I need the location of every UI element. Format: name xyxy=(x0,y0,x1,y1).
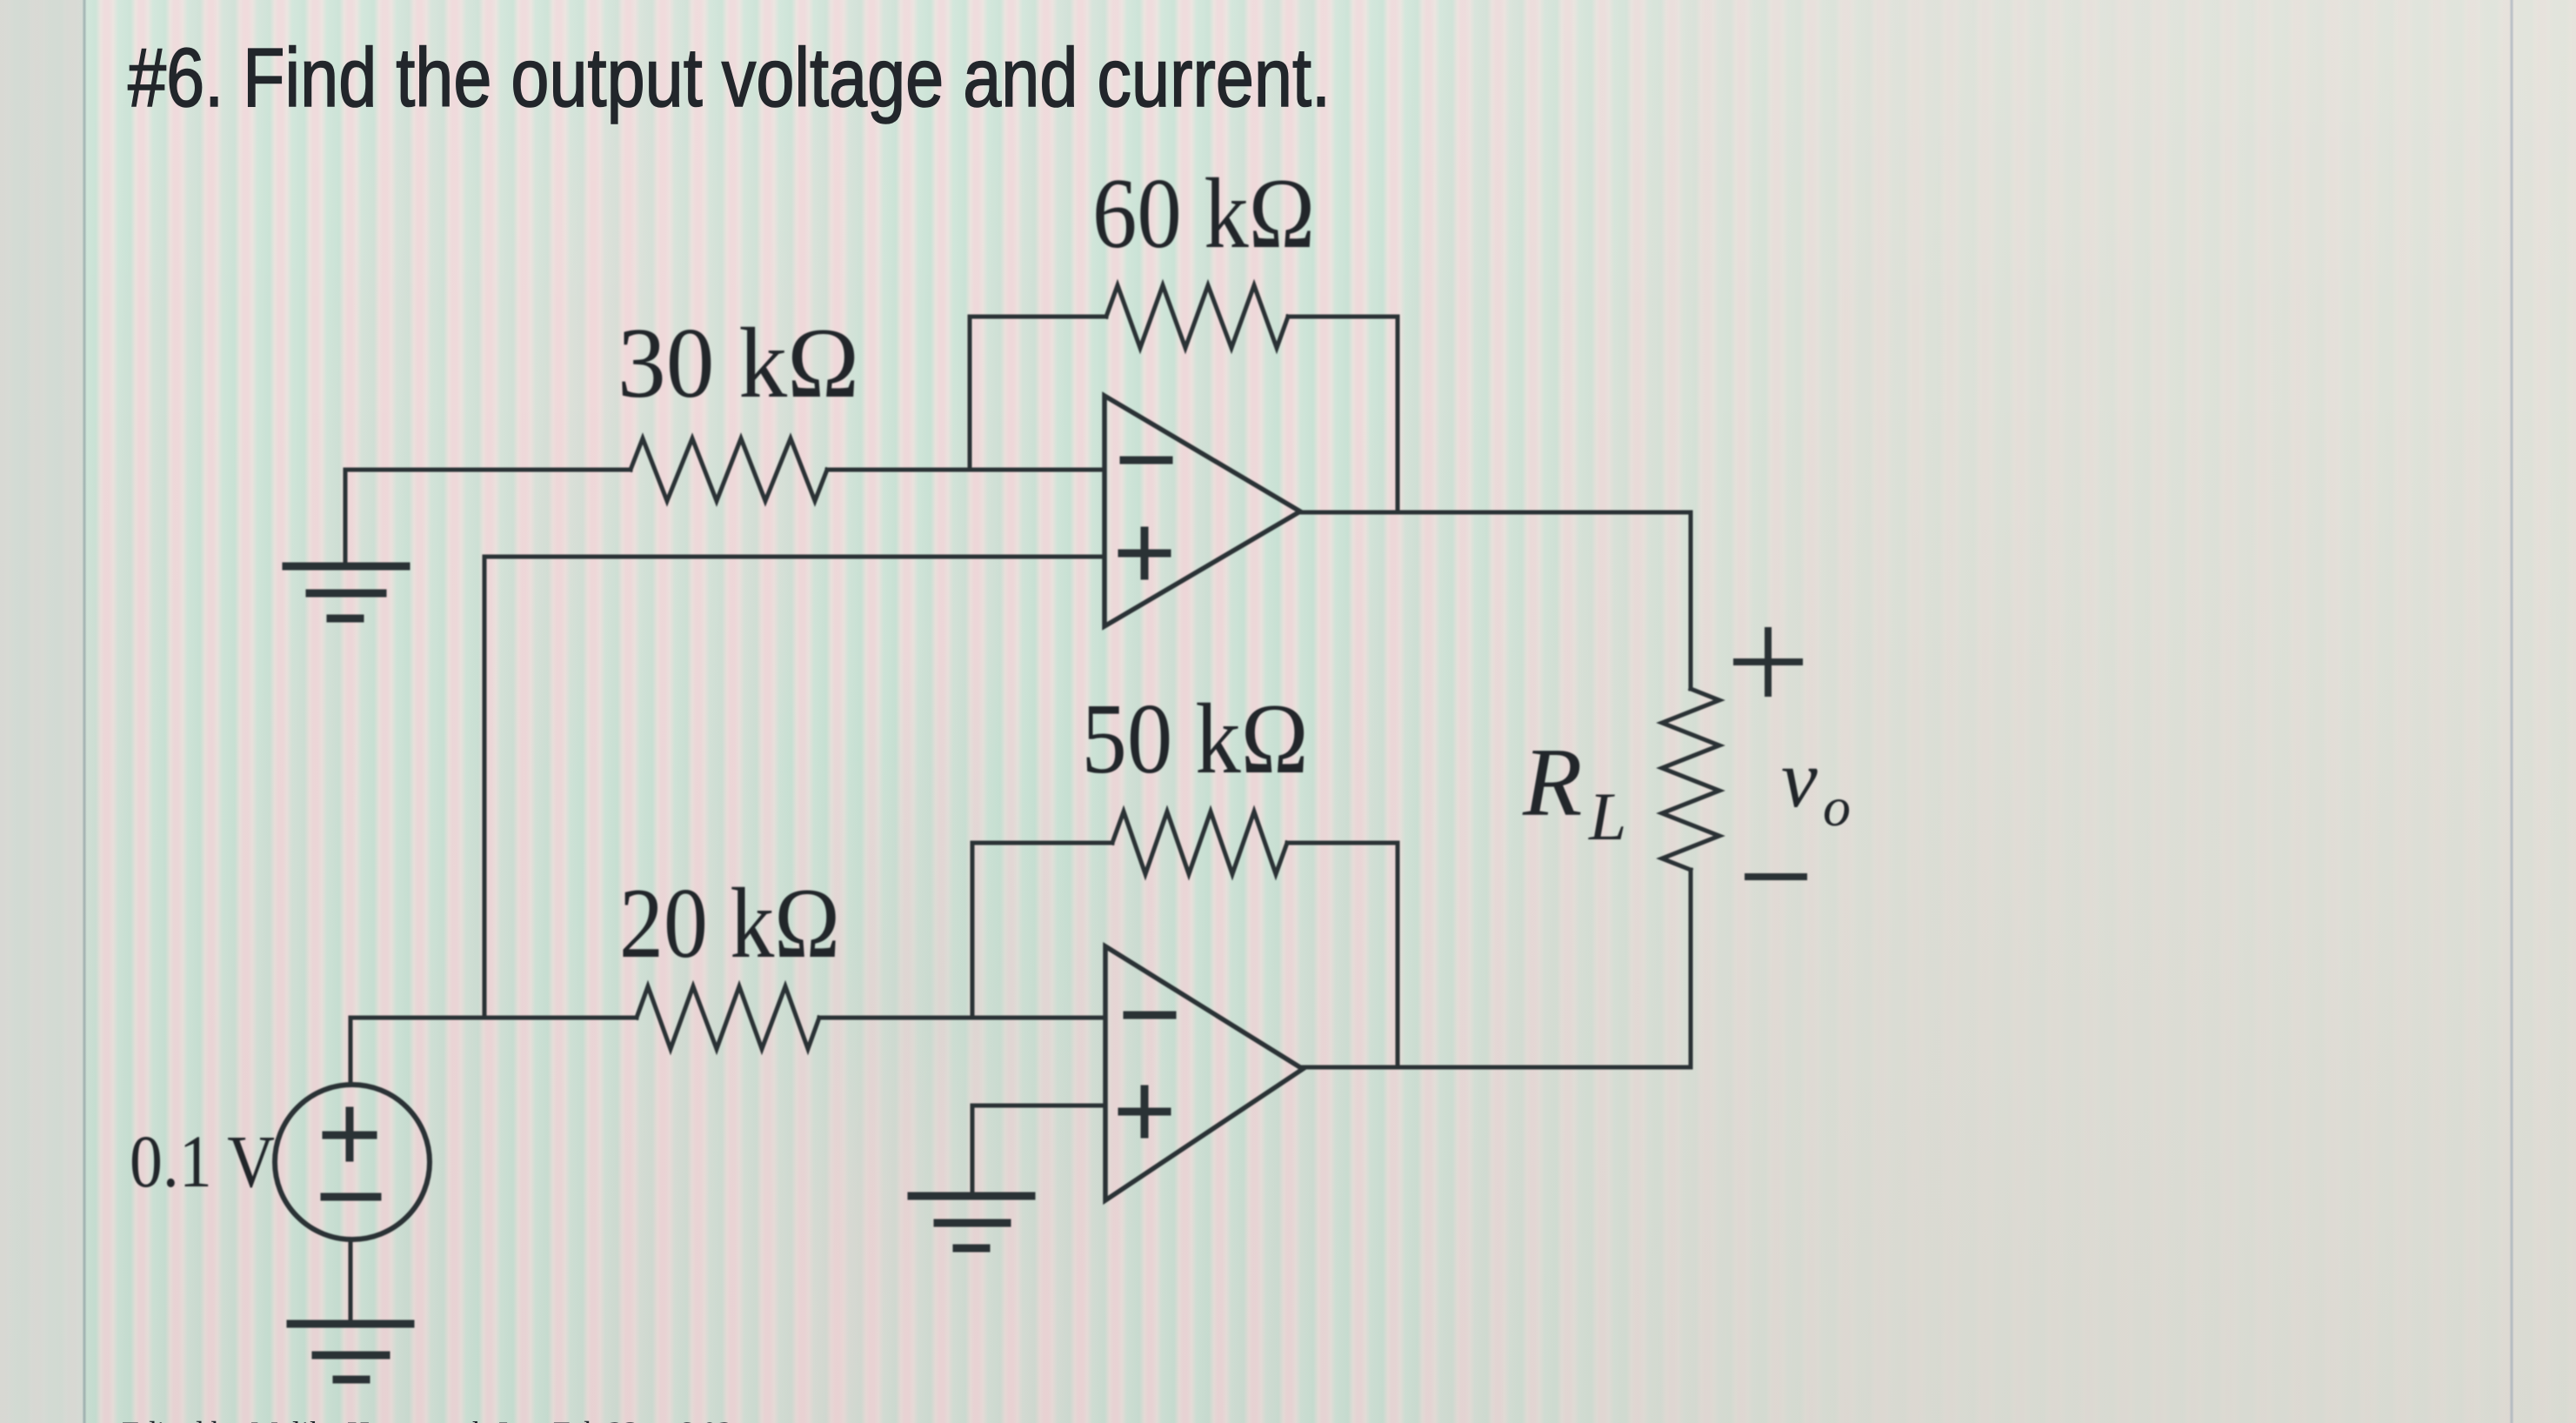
svg-text:v: v xyxy=(1781,734,1818,825)
wire: U2 feedback left riser from node C up xyxy=(972,843,1112,1018)
svg-text:0.1 V: 0.1 V xyxy=(130,1119,275,1203)
wire: RL bottom riser xyxy=(1689,870,1693,1067)
resistor R4 50 kOhm (feedback resistor of U2) xyxy=(1112,812,1287,874)
wire: R2 right end to feedback right riser down to U1 output xyxy=(1288,317,1398,512)
op-amp U1 (top) xyxy=(1104,396,1300,626)
resistor R1 30 kOhm (input resistor to U1 inverting input) xyxy=(631,438,827,501)
U2 inverting pin label (minus) xyxy=(1127,1012,1172,1019)
svg-text:20 kΩ: 20 kΩ xyxy=(619,868,840,979)
U1 non-inverting pin label (plus) xyxy=(1122,531,1167,576)
wire: bottom rail from RL to U2 output xyxy=(1301,1066,1691,1070)
svg-text:R: R xyxy=(1522,729,1582,837)
label + of vo xyxy=(1737,631,1799,693)
V1 minus mark xyxy=(324,1193,377,1201)
ground G2 (U2 + input ground) xyxy=(911,1196,1031,1248)
ground G1 (left ground) xyxy=(286,566,406,618)
resistor RL (load, vertical) xyxy=(1662,689,1719,870)
wire: U1 output to load top corner xyxy=(1300,511,1691,515)
U2 non-inverting pin label (plus) xyxy=(1122,1089,1167,1134)
wire: U1 non-inverting input horizontal xyxy=(484,555,1104,559)
op-amp U2 (bottom) xyxy=(1105,946,1303,1200)
wire: source node B horizontal to R3 left end xyxy=(350,1016,637,1020)
wire: R3 right end to U2 inverting input, junction node C with feedback riser xyxy=(819,1016,1105,1020)
label minus of vo xyxy=(1748,873,1804,880)
svg-text:50 kΩ: 50 kΩ xyxy=(1082,684,1309,794)
voltage source V1 0.1 V xyxy=(275,1085,430,1239)
svg-text:30 kΩ: 30 kΩ xyxy=(617,308,859,418)
svg-text:Edited by Malika Homework Jan,: Edited by Malika Homework Jan, Feb 23 at… xyxy=(122,1415,733,1423)
svg-text:L: L xyxy=(1588,778,1626,854)
wire: ground G1 riser and horizontal to R1 left end (node at inverting path of U1) xyxy=(345,470,631,566)
resistor R3 20 kOhm (input resistor to U2 inverting input) xyxy=(637,986,819,1049)
U1 inverting pin label (minus) xyxy=(1124,457,1169,464)
svg-text:60 kΩ: 60 kΩ xyxy=(1092,158,1315,269)
wire: R4 right end to feedback right riser down to U2 output xyxy=(1287,843,1398,1067)
wire: U2 non-inverting input horizontal to ground riser xyxy=(972,1106,1105,1196)
svg-text:o: o xyxy=(1823,776,1851,838)
ground G3 (source ground) xyxy=(290,1324,410,1380)
page edge line left xyxy=(83,0,86,1423)
svg-text:#6. Find the output voltage an: #6. Find the output voltage and current. xyxy=(128,31,1331,124)
resistor R2 60 kOhm (feedback resistor of U1) xyxy=(1106,285,1288,348)
wire: source top riser from node B down to V1 + terminal xyxy=(349,1018,353,1085)
wire: R1 right end to U1 inverting input, junction node A with feedback riser xyxy=(827,468,1104,472)
wire: U1 feedback left riser from node A up xyxy=(970,317,1106,470)
V1 plus mark xyxy=(326,1111,373,1158)
page edge line right xyxy=(2511,0,2513,1423)
wire: RL top riser xyxy=(1689,512,1693,689)
wire: V1 bottom riser to ground G3 xyxy=(349,1239,353,1324)
wire: long riser from U1 + input down to source node B xyxy=(483,557,487,1018)
